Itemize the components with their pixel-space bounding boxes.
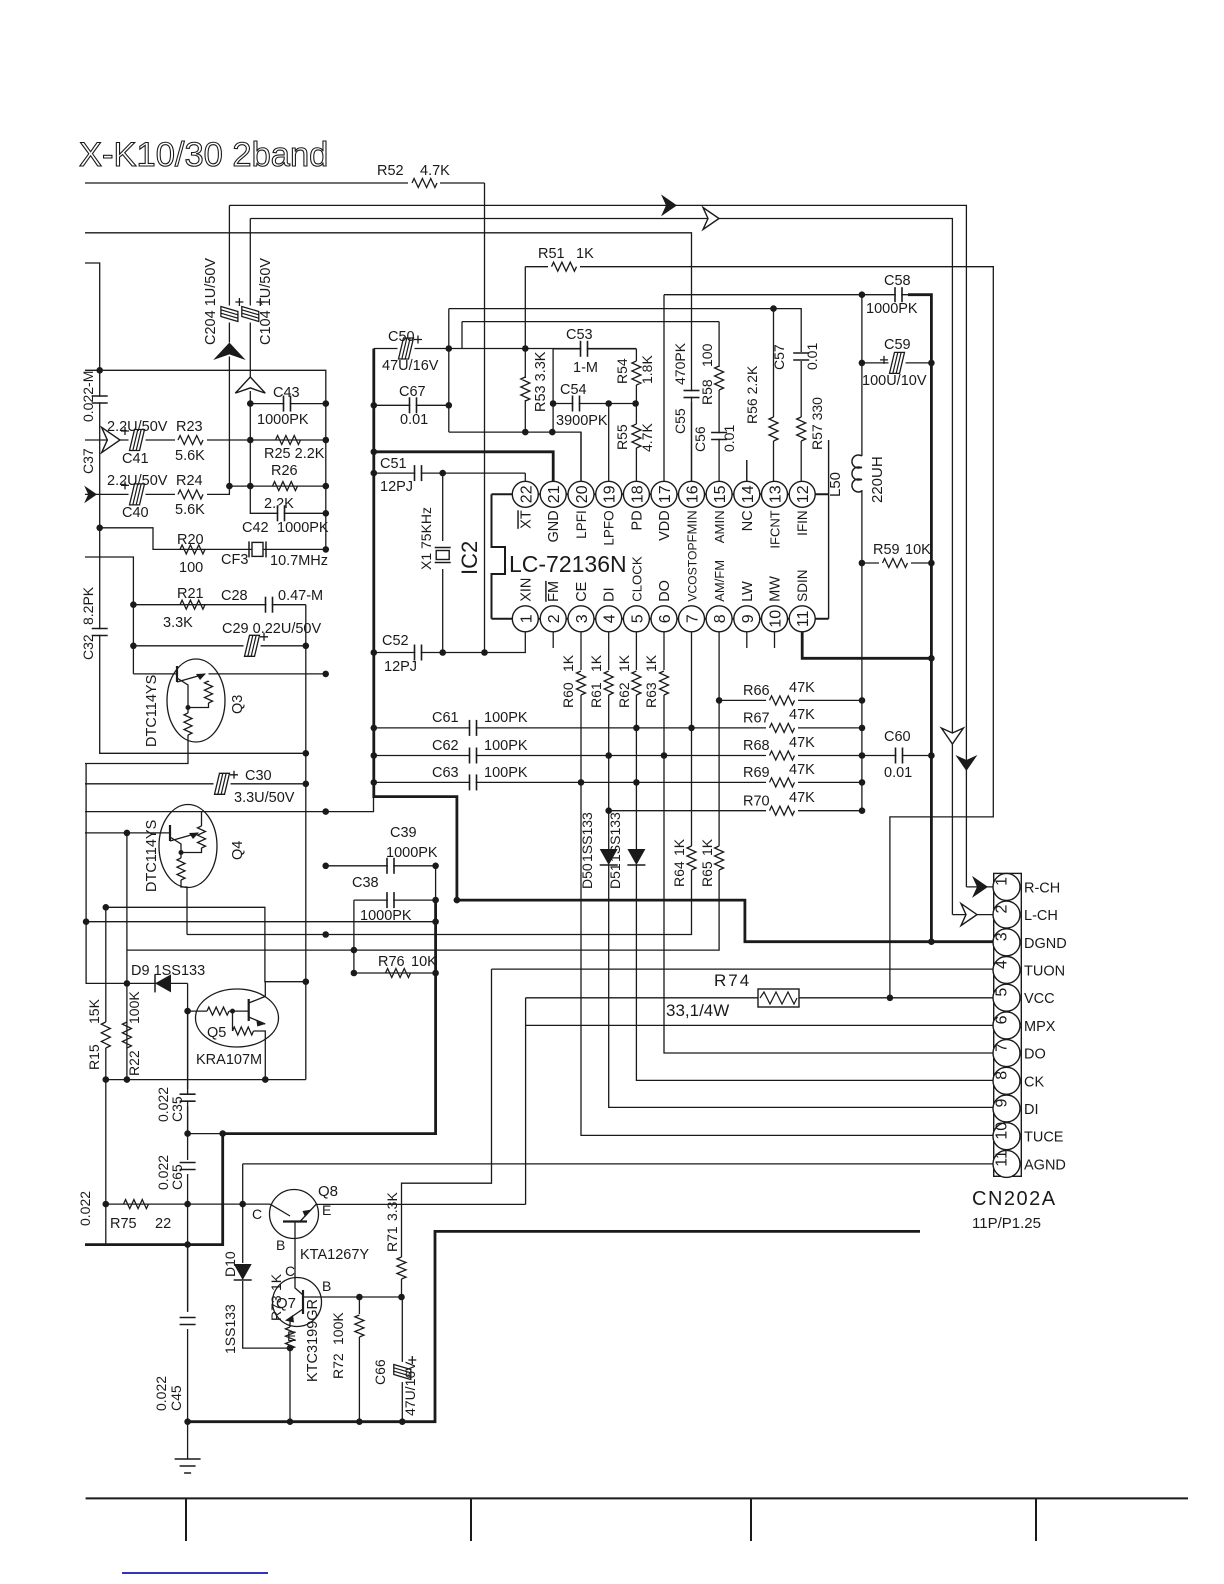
svg-text:NC: NC — [740, 510, 756, 531]
resistor R66 — [766, 693, 798, 707]
connector CN202A pin 6 MPX — [993, 1012, 1020, 1039]
wire R21 C28 line y=604.7 — [133, 604, 305, 606]
svg-text:C42: C42 — [242, 520, 269, 536]
transistor Q5 KRA107M — [196, 989, 279, 1047]
node C58 left L50 column — [859, 291, 866, 298]
wire pin22 stub — [524, 473, 526, 481]
wire C39 line y=865.8 — [326, 865, 436, 867]
IC2 pin 16 FMIN — [679, 481, 705, 507]
svg-text:100: 100 — [179, 560, 203, 576]
svg-text:0.022-M: 0.022-M — [80, 371, 96, 422]
svg-text:1K: 1K — [643, 654, 659, 672]
IC U2 LC-72136N body — [492, 494, 506, 619]
svg-text:AMIN: AMIN — [712, 510, 727, 543]
svg-text:D50: D50 — [579, 863, 595, 889]
svg-text:C104 1U/50V: C104 1U/50V — [258, 258, 274, 345]
svg-text:R71: R71 — [384, 1226, 400, 1252]
IC2 pin 13 IFCNT — [762, 481, 788, 507]
wire CLOCK column pin5 — [635, 632, 637, 670]
capacitor C204 — [227, 306, 231, 323]
svg-text:1SS133: 1SS133 — [579, 812, 595, 862]
wire y=921.7 line — [86, 921, 436, 923]
wire C41 line y=440 — [85, 439, 326, 441]
connector CN202A pin 11 AGND — [993, 1150, 1020, 1177]
IC2 pin 4 DI — [596, 606, 622, 632]
wire C38 line y=900.1 — [354, 899, 436, 901]
resistor R65 — [715, 846, 724, 870]
page frame bottom line — [86, 1497, 1188, 1499]
svg-text:0.022: 0.022 — [153, 1376, 169, 1411]
svg-text:DO: DO — [1024, 1047, 1046, 1063]
arrow on L3 — [703, 208, 719, 230]
arrow into R-CH — [966, 886, 993, 888]
svg-text:AGND: AGND — [1024, 1157, 1066, 1173]
wire x=86 riser — [86, 764, 188, 984]
svg-text:5.6K: 5.6K — [175, 448, 205, 464]
IC2 pin 7 VCOSTOP — [679, 606, 705, 632]
svg-text:5.6K: 5.6K — [175, 502, 205, 518]
svg-text:C62: C62 — [432, 738, 459, 754]
svg-text:100K: 100K — [330, 1312, 346, 1345]
svg-text:1000PK: 1000PK — [257, 412, 309, 428]
svg-text:VDD: VDD — [657, 510, 673, 541]
resistor R67 — [766, 721, 798, 735]
svg-text:LC-72136N: LC-72136N — [509, 551, 627, 577]
resistor R26 — [273, 482, 298, 491]
svg-text:R66: R66 — [743, 683, 770, 699]
svg-text:2.2U/50V: 2.2U/50V — [107, 419, 168, 435]
svg-text:47U/16V: 47U/16V — [402, 1361, 418, 1416]
wire bold DGND main column x=373.5 — [374, 349, 993, 942]
svg-text:R63: R63 — [643, 682, 659, 708]
wire R26 line y=486.1 — [229, 485, 325, 487]
svg-text:1-M: 1-M — [573, 360, 598, 376]
wire VCOSTOP line y=934.5 to Q4 emitter — [187, 870, 692, 935]
IC2 pin 21 GND — [540, 481, 566, 507]
svg-text:IFIN: IFIN — [795, 510, 810, 536]
ceramic filter CF3 — [248, 541, 250, 557]
svg-text:C50: C50 — [388, 329, 415, 345]
svg-text:DTC114YS: DTC114YS — [144, 820, 160, 892]
svg-text:11P/P1.25: 11P/P1.25 — [972, 1215, 1041, 1232]
capacitor C38 — [388, 892, 393, 908]
node R54 bottom — [632, 400, 639, 407]
svg-text:C67: C67 — [399, 384, 426, 400]
svg-text:R52: R52 — [377, 163, 404, 179]
svg-text:AM/FM: AM/FM — [712, 560, 727, 602]
wire C204 column — [228, 205, 230, 342]
svg-text:IFCNT: IFCNT — [768, 510, 783, 548]
wire VCOSTOP column pin7 with R64 — [691, 632, 693, 846]
svg-text:R60: R60 — [560, 682, 576, 708]
node DGND bold x931 — [928, 938, 935, 945]
svg-text:1K: 1K — [576, 246, 594, 262]
resistor R70 — [766, 804, 798, 818]
arrow filled C40 line — [84, 486, 97, 504]
wire C40 line y=494.4 — [85, 486, 229, 494]
wire R20 CF3 line — [100, 528, 326, 550]
svg-text:KTC3199GR: KTC3199GR — [305, 1299, 321, 1382]
svg-text:DI: DI — [602, 587, 618, 602]
svg-text:C52: C52 — [382, 633, 409, 649]
connector CN202A pin 3 DGND — [993, 929, 1020, 956]
svg-text:Q4: Q4 — [230, 841, 246, 860]
resistor R20 — [180, 545, 205, 554]
svg-text:1K: 1K — [671, 838, 687, 856]
svg-text:MW: MW — [768, 576, 784, 602]
svg-text:100: 100 — [699, 343, 715, 367]
arrow open C41 line — [102, 427, 120, 452]
svg-text:R69: R69 — [743, 765, 770, 781]
svg-text:C56: C56 — [692, 426, 708, 452]
node C42 right — [323, 510, 330, 517]
svg-text:47K: 47K — [789, 762, 815, 778]
svg-text:15: 15 — [712, 485, 729, 503]
wire C37 column — [85, 263, 306, 753]
svg-text:R76: R76 — [378, 954, 405, 970]
wire L2 bus y=205.4 — [229, 205, 966, 887]
wire L1 riser to XIN line — [484, 183, 486, 653]
node C59 ends — [859, 360, 866, 367]
svg-text:1SS133: 1SS133 — [222, 1304, 238, 1354]
svg-text:C45: C45 — [168, 1385, 184, 1411]
svg-text:9: 9 — [740, 614, 757, 623]
svg-text:R57 330: R57 330 — [809, 397, 825, 450]
svg-text:CF3: CF3 — [221, 552, 248, 568]
svg-text:CN202A: CN202A — [972, 1188, 1057, 1210]
svg-text:DI: DI — [1024, 1102, 1039, 1118]
svg-text:DGND: DGND — [1024, 936, 1067, 952]
capacitor C42 — [278, 505, 283, 521]
svg-text:R56 2.2K: R56 2.2K — [744, 365, 760, 424]
wire C67 line y=405.3 — [374, 404, 449, 406]
wire C53 line y=348.8 — [553, 348, 636, 350]
svg-text:0.022: 0.022 — [77, 1191, 93, 1226]
node C43 right — [323, 400, 330, 407]
wire TUON line y=969.1 — [492, 968, 993, 970]
svg-text:1K: 1K — [699, 838, 715, 856]
svg-text:R72: R72 — [330, 1353, 346, 1379]
svg-text:13: 13 — [768, 485, 785, 503]
wire C51 line y=473.1 — [374, 472, 526, 474]
wire FMIN column lower — [691, 402, 693, 481]
arrow into L-CH — [952, 914, 993, 916]
resistor R54 — [635, 349, 637, 361]
svg-text:0.01: 0.01 — [400, 412, 428, 428]
svg-text:R64: R64 — [671, 861, 687, 887]
svg-text:D10: D10 — [222, 1251, 238, 1277]
svg-text:L50: L50 — [827, 472, 844, 497]
IC2 pin 10 MW — [762, 606, 788, 632]
svg-text:R73: R73 — [268, 1295, 284, 1321]
svg-text:R58: R58 — [699, 379, 715, 405]
wire R15 column — [105, 907, 107, 1022]
node R51 to VCC line — [887, 995, 894, 1002]
capacitor C55 on FMIN column — [684, 391, 700, 396]
svg-text:16: 16 — [685, 485, 702, 503]
node y370 x99.7 — [96, 367, 103, 374]
svg-text:C41: C41 — [122, 451, 149, 467]
wire C43 line y=403.6 — [250, 403, 325, 405]
wire FM pin2 stub — [552, 632, 554, 648]
IC2 pin 15 AMIN — [706, 481, 732, 507]
svg-text:470PK: 470PK — [672, 342, 688, 385]
arrow down open on L-CH riser — [941, 728, 963, 744]
node R26 right — [323, 483, 330, 490]
resistor R73 — [289, 1324, 291, 1327]
svg-text:DTC114YS: DTC114YS — [144, 675, 160, 747]
resistor R22 — [122, 1022, 131, 1048]
svg-text:C32: C32 — [80, 634, 96, 660]
svg-text:4.7K: 4.7K — [420, 163, 450, 179]
capacitor C35 — [187, 1011, 189, 1089]
resistor R56 on IFCNT column — [773, 309, 775, 417]
svg-text:C61: C61 — [432, 710, 459, 726]
svg-text:2: 2 — [994, 905, 1011, 914]
capacitor C30 — [214, 782, 231, 786]
capacitor C60 — [896, 748, 901, 764]
wire FMIN R58 top line y=321.6 — [461, 322, 463, 349]
IC2 pin 18 PD — [623, 481, 649, 507]
wire R76 line y=973 — [354, 972, 436, 974]
IC2 pin 6 DO — [651, 606, 677, 632]
svg-text:220UH: 220UH — [869, 456, 886, 503]
svg-text:1: 1 — [518, 614, 535, 623]
svg-text:100U/10V: 100U/10V — [862, 373, 927, 389]
wire Q4 collector line y=811.6 — [85, 797, 374, 812]
wire C52 line y=652.5 — [374, 632, 526, 652]
resistor R25 — [276, 436, 301, 445]
svg-text:4.7K: 4.7K — [639, 423, 655, 452]
IC2 pin 11 SDIN — [789, 606, 815, 632]
svg-text:VCC: VCC — [1024, 991, 1055, 1007]
wire pin14 NC stub top — [746, 460, 748, 481]
wire Q4 base line — [85, 832, 170, 834]
svg-text:3: 3 — [994, 932, 1011, 941]
svg-text:C65: C65 — [169, 1164, 185, 1190]
svg-text:R53 3.3K: R53 3.3K — [533, 351, 549, 412]
svg-text:C: C — [285, 1263, 295, 1279]
svg-text:E: E — [322, 1202, 331, 1218]
wire MW pin10 stub — [774, 632, 776, 648]
svg-text:47K: 47K — [789, 680, 815, 696]
pin14 NC stub — [746, 460, 748, 481]
svg-text:15K: 15K — [86, 998, 102, 1024]
svg-text:R70: R70 — [743, 794, 770, 810]
svg-text:1000PK: 1000PK — [277, 520, 329, 536]
capacitor C29 — [244, 644, 261, 648]
connector CN202A pin 2 L-CH — [993, 901, 1020, 928]
svg-text:1000PK: 1000PK — [360, 908, 412, 924]
svg-text:FMIN: FMIN — [685, 510, 700, 542]
connector CN202A pin 8 CK — [993, 1067, 1020, 1094]
node R53 bottom on LPFI line — [522, 429, 529, 436]
svg-text:C60: C60 — [884, 729, 911, 745]
IC2 pin 5 CLOCK — [623, 606, 649, 632]
capacitor C65 — [180, 1163, 196, 1168]
svg-text:XT: XT — [518, 510, 534, 529]
resistor R69 — [766, 775, 798, 789]
svg-text:Q5: Q5 — [207, 1025, 226, 1041]
wire y=1079.6 line — [106, 1079, 306, 1081]
arrow up filled on C204 column — [213, 343, 246, 361]
svg-text:1SS133: 1SS133 — [607, 812, 623, 862]
svg-text:R55: R55 — [614, 424, 630, 450]
wire DI column pin4 — [608, 632, 610, 670]
svg-text:TUCE: TUCE — [1024, 1130, 1064, 1146]
arrow down filled on R-CH riser — [955, 755, 977, 771]
svg-text:12PJ: 12PJ — [384, 659, 417, 675]
svg-text:10.7MHz: 10.7MHz — [270, 553, 328, 569]
wire VCC line y=997.8 — [526, 997, 758, 999]
capacitor C56 on AMIN column — [718, 390, 720, 481]
node Q3 collector to bus — [322, 671, 329, 678]
wire L3 bus y=218.5 — [250, 219, 952, 915]
capacitor C51 — [415, 465, 420, 481]
transistor Q7 KTC3199GR — [273, 1278, 322, 1327]
svg-text:11: 11 — [994, 1150, 1011, 1167]
svg-text:C39: C39 — [390, 825, 417, 841]
wire LW pin9 stub — [746, 632, 748, 648]
svg-text:C204 1U/50V: C204 1U/50V — [203, 258, 219, 345]
svg-text:CLOCK: CLOCK — [629, 556, 644, 602]
resistor R52 — [408, 176, 440, 190]
wire C50 line y=348.5 — [374, 348, 637, 350]
wire C61 R67 line y=727.9 — [374, 727, 862, 729]
capacitor C61 — [470, 720, 475, 736]
IC2 pin 1 XIN — [512, 606, 538, 632]
transistor Q4 DTC114YS — [159, 805, 217, 888]
crystal X1 — [442, 473, 444, 541]
svg-text:3900PK: 3900PK — [556, 413, 608, 429]
wire R51 line y=266.7 — [525, 267, 993, 998]
capacitor C67 — [410, 397, 415, 413]
node C50 C67 riser — [446, 345, 453, 352]
resistor R63 — [660, 671, 669, 695]
svg-text:C53: C53 — [566, 327, 593, 343]
svg-text:100PK: 100PK — [484, 738, 528, 754]
svg-text:21: 21 — [546, 485, 563, 503]
resistor R23 — [175, 433, 207, 447]
svg-text:8: 8 — [994, 1071, 1011, 1080]
svg-text:C63: C63 — [432, 765, 459, 781]
svg-text:3: 3 — [574, 614, 591, 623]
capacitor C66 — [401, 1297, 403, 1362]
svg-text:18: 18 — [629, 485, 646, 503]
svg-text:22: 22 — [518, 485, 535, 503]
svg-text:C66: C66 — [372, 1359, 388, 1385]
svg-text:22: 22 — [155, 1216, 171, 1232]
svg-text:47U/16V: 47U/16V — [382, 358, 439, 374]
wire bold GND rail y=1421.7 — [188, 1231, 920, 1421]
svg-text:CE: CE — [574, 581, 590, 601]
wire VDD to C58 line y=294.7 — [664, 294, 930, 296]
node Q5 collector to v1 — [303, 978, 310, 985]
diode D9 1SS133 — [155, 974, 171, 992]
capacitor C62 — [470, 748, 475, 764]
wire C53-C54 link x=553.1 — [552, 349, 554, 432]
svg-text:7: 7 — [685, 614, 702, 623]
IC2 pin 20 LPFI — [568, 481, 594, 507]
wire LPFO riser pin19 — [608, 404, 610, 482]
svg-text:R62: R62 — [616, 682, 632, 708]
transistor Q3 DTC114YS — [167, 659, 225, 742]
resistor R55 — [632, 424, 641, 448]
svg-text:KTA1267Y: KTA1267Y — [300, 1247, 369, 1263]
svg-text:R22: R22 — [126, 1050, 142, 1076]
svg-text:3.3U/50V: 3.3U/50V — [234, 790, 295, 806]
svg-text:4: 4 — [602, 614, 619, 623]
resistor R51 — [548, 259, 580, 273]
resistor R15 — [101, 1022, 110, 1048]
wire 8.2PK stub y=557 — [85, 557, 133, 674]
node C30 right — [303, 781, 310, 788]
svg-text:3.3K: 3.3K — [384, 1192, 400, 1221]
svg-text:B: B — [322, 1278, 331, 1294]
svg-text:C30: C30 — [245, 768, 272, 784]
svg-text:D9 1SS133: D9 1SS133 — [131, 963, 205, 979]
svg-text:R21: R21 — [177, 586, 204, 602]
wire C63 R69 line y=782.4 — [374, 781, 862, 783]
resistor R24 — [175, 487, 207, 501]
wire AMFM line y=950.1 — [127, 870, 719, 950]
svg-text:5: 5 — [994, 988, 1011, 997]
svg-text:0.47-M: 0.47-M — [278, 588, 323, 604]
resistor R57 on IFIN column — [800, 361, 802, 417]
wire DO column pin6 — [663, 632, 665, 670]
capacitor C59 — [889, 361, 906, 365]
node R51 junction on C50 line — [522, 345, 529, 352]
svg-text:LPFI: LPFI — [574, 510, 589, 539]
capacitor C40 — [129, 492, 146, 496]
svg-text:VCOSTOP: VCOSTOP — [686, 542, 700, 601]
connector CN202A body — [994, 873, 1022, 1176]
wire CE column pin3 — [580, 632, 582, 670]
resistor R75 — [124, 1200, 149, 1209]
svg-text:17: 17 — [657, 485, 674, 503]
svg-text:CK: CK — [1024, 1074, 1044, 1090]
svg-text:LW: LW — [740, 581, 756, 602]
wire R70 line y=810.7 — [609, 810, 862, 812]
svg-text:6: 6 — [657, 614, 674, 623]
connector CN202A pin 4 TUON — [993, 957, 1020, 984]
node R25 right — [323, 437, 330, 444]
wire x=126.9 riser — [126, 833, 128, 1080]
svg-text:R75: R75 — [110, 1216, 137, 1232]
capacitor C39 — [388, 858, 393, 874]
resistor R59 — [879, 556, 911, 570]
node C54 pin19 — [605, 400, 612, 407]
wire AGND line y=1163.9 — [243, 1163, 993, 1165]
svg-text:10: 10 — [768, 610, 785, 628]
wire C54 line y=403.5 — [553, 403, 636, 405]
svg-text:8: 8 — [712, 614, 729, 623]
svg-text:19: 19 — [602, 485, 619, 503]
svg-text:1K: 1K — [588, 654, 604, 672]
wire MPX riser x=525.6 — [525, 998, 527, 1205]
svg-text:47K: 47K — [789, 707, 815, 723]
svg-text:10K: 10K — [905, 542, 931, 558]
resistor R74 33 1/4W box — [758, 989, 799, 1007]
connector CN202A pin 7 DO — [993, 1040, 1020, 1067]
svg-text:20: 20 — [574, 485, 591, 503]
wire R66 line y=700.4 — [719, 699, 862, 701]
wire L1 top bus y=183 — [85, 182, 485, 184]
wire R75 line y=1204.1 — [106, 1203, 270, 1205]
resistor R21 — [180, 600, 205, 609]
svg-text:L-CH: L-CH — [1024, 908, 1058, 924]
node x305.8 y753.3 — [303, 750, 310, 757]
